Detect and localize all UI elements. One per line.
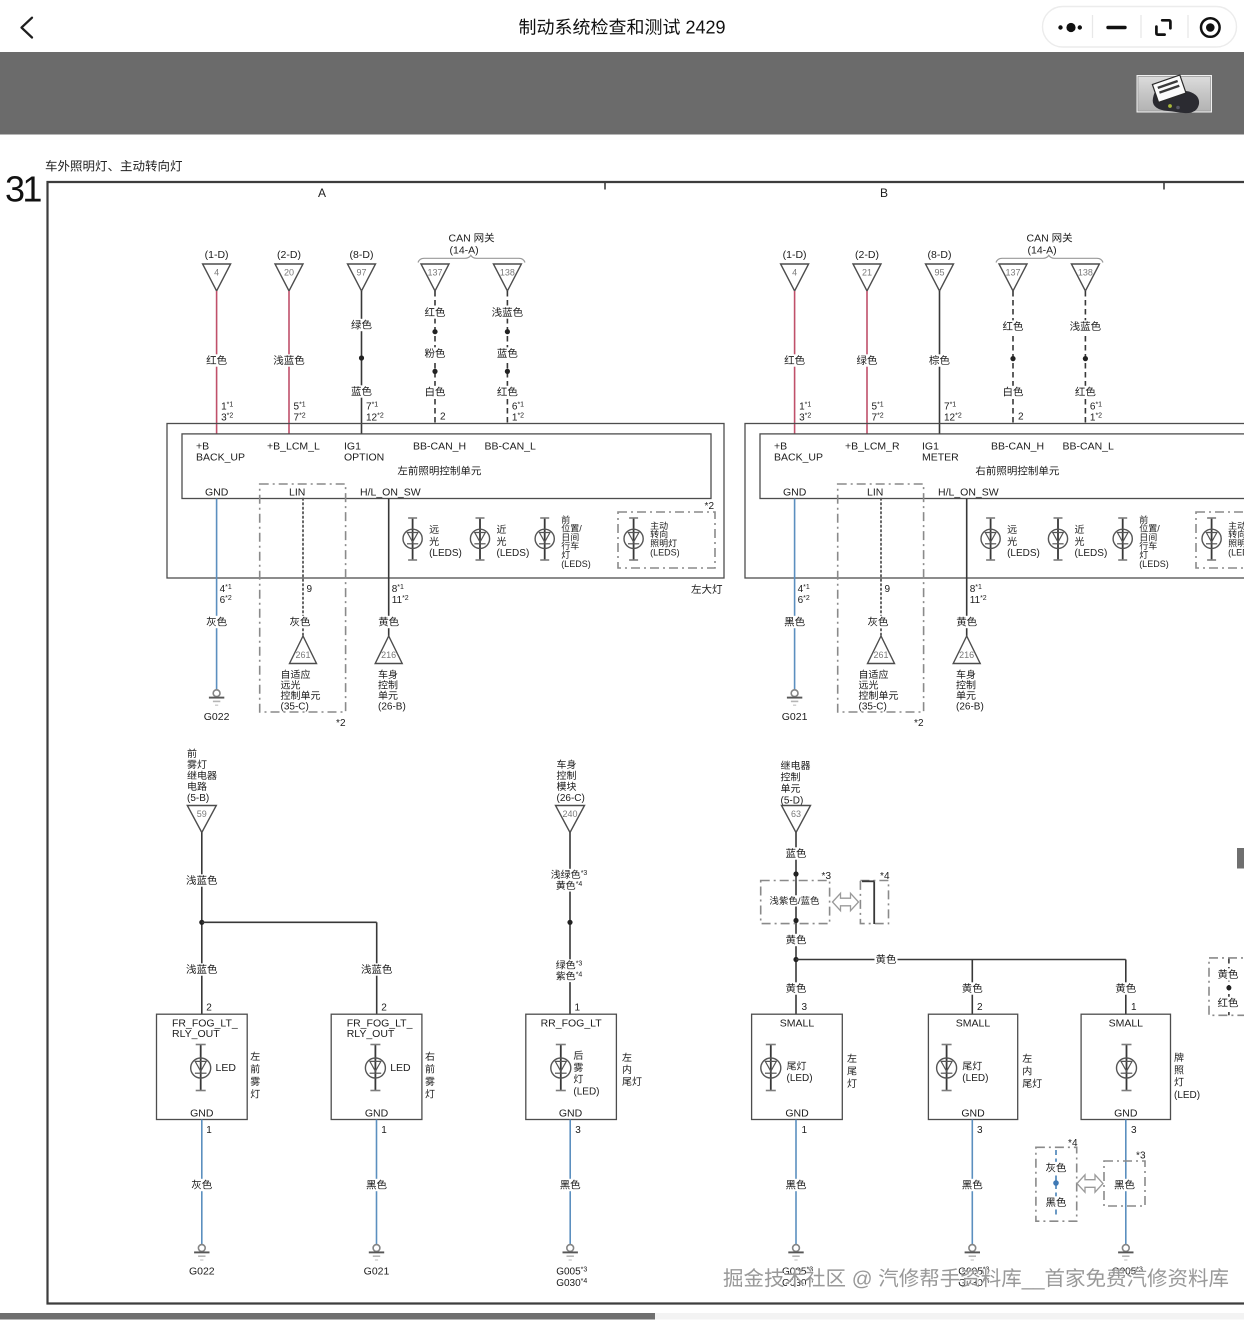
svg-text:21: 21: [862, 265, 872, 278]
svg-text:9: 9: [885, 580, 891, 595]
svg-text:(LEDS): (LEDS): [650, 546, 680, 559]
svg-text:灰色: 灰色: [868, 615, 889, 630]
svg-text:绿色: 绿色: [351, 318, 372, 333]
svg-text:(5-B): (5-B): [187, 789, 209, 804]
svg-text:METER: METER: [922, 450, 959, 465]
svg-text:黑色: 黑色: [560, 1178, 581, 1193]
svg-text:绿色: 绿色: [857, 353, 878, 368]
svg-text:(LED): (LED): [573, 1082, 599, 1097]
svg-text:尾灯: 尾灯: [622, 1073, 642, 1088]
svg-text:浅蓝色: 浅蓝色: [492, 305, 524, 320]
svg-text:3: 3: [1131, 1121, 1137, 1136]
svg-text:95: 95: [934, 265, 944, 278]
svg-text:261: 261: [295, 648, 310, 661]
svg-text:3: 3: [802, 998, 808, 1013]
svg-text:(26-B): (26-B): [378, 698, 406, 713]
svg-text:左大灯: 左大灯: [691, 582, 723, 597]
svg-text:59: 59: [197, 807, 207, 820]
svg-text:LIN: LIN: [289, 485, 305, 500]
svg-text:(26-C): (26-C): [557, 789, 585, 804]
svg-text:(LEDS): (LEDS): [429, 544, 462, 559]
svg-text:H/L_ON_SW: H/L_ON_SW: [360, 485, 421, 500]
svg-text:240: 240: [562, 807, 577, 820]
svg-text:2: 2: [1018, 408, 1024, 423]
svg-text:左前照明控制单元: 左前照明控制单元: [397, 464, 481, 479]
svg-text:A: A: [318, 184, 326, 201]
svg-text:BB-CAN_H: BB-CAN_H: [991, 439, 1044, 454]
svg-text:LED: LED: [390, 1060, 411, 1075]
svg-text:*2: *2: [336, 714, 346, 729]
svg-text:GND: GND: [1114, 1106, 1138, 1121]
svg-text:浅蓝色: 浅蓝色: [361, 962, 393, 977]
svg-text:+B_LCM_R: +B_LCM_R: [845, 439, 900, 454]
svg-text:LED: LED: [216, 1060, 237, 1075]
svg-text:137: 137: [427, 265, 442, 278]
svg-text:GND: GND: [190, 1106, 214, 1121]
svg-text:浅蓝色: 浅蓝色: [273, 353, 305, 368]
svg-text:粉色: 粉色: [425, 346, 446, 361]
svg-text:216: 216: [959, 648, 974, 661]
svg-text:黄色: 黄色: [378, 615, 399, 630]
svg-text:红色: 红色: [784, 353, 805, 368]
svg-text:GND: GND: [785, 1106, 809, 1121]
svg-text:63: 63: [791, 807, 801, 820]
svg-text:(LEDS): (LEDS): [1075, 544, 1108, 559]
svg-text:1: 1: [206, 1121, 212, 1136]
svg-text:RR_FOG_LT: RR_FOG_LT: [541, 1016, 603, 1031]
svg-text:(35-C): (35-C): [281, 698, 309, 713]
svg-text:灯: 灯: [250, 1086, 260, 1101]
svg-text:白色: 白色: [425, 385, 446, 400]
svg-text:(LEDS): (LEDS): [497, 544, 530, 559]
svg-text:BB-CAN_L: BB-CAN_L: [485, 439, 537, 454]
svg-text:(8-D): (8-D): [928, 247, 952, 262]
svg-text:棕色: 棕色: [929, 353, 950, 368]
svg-text:蓝色: 蓝色: [497, 346, 518, 361]
svg-text:(14-A): (14-A): [1028, 243, 1057, 258]
svg-text:4: 4: [792, 265, 797, 278]
svg-text:红色: 红色: [206, 353, 227, 368]
svg-text:黄色: 黄色: [876, 952, 897, 967]
svg-text:SMALL: SMALL: [956, 1016, 991, 1031]
svg-text:*3: *3: [1136, 1147, 1146, 1162]
svg-text:H/L_ON_SW: H/L_ON_SW: [938, 485, 999, 500]
svg-text:*2: *2: [914, 714, 924, 729]
svg-text:黑色: 黑色: [366, 1178, 387, 1193]
svg-text:红色: 红色: [1003, 319, 1024, 334]
svg-text:138: 138: [1078, 265, 1093, 278]
svg-text:尾灯: 尾灯: [1022, 1075, 1042, 1090]
svg-text:浅蓝色: 浅蓝色: [186, 962, 218, 977]
svg-text:1: 1: [575, 999, 581, 1014]
svg-text:灰色: 灰色: [1046, 1161, 1068, 1176]
svg-text:4: 4: [214, 265, 219, 278]
svg-text:黄色: 黄色: [1218, 967, 1240, 982]
svg-text:2: 2: [977, 998, 983, 1013]
svg-text:(35-C): (35-C): [859, 698, 887, 713]
svg-text:*4: *4: [880, 867, 890, 882]
svg-text:(LEDS): (LEDS): [1228, 546, 1244, 559]
svg-text:白色: 白色: [1003, 385, 1024, 400]
svg-text:1: 1: [381, 1121, 387, 1136]
svg-text:掘金技术社区 @ 汽修帮手资料库__首家免费汽修资料库: 掘金技术社区 @ 汽修帮手资料库__首家免费汽修资料库: [723, 1262, 1229, 1292]
svg-text:2: 2: [206, 999, 212, 1014]
svg-text:3: 3: [977, 1121, 983, 1136]
svg-text:红色: 红色: [1218, 996, 1240, 1011]
svg-text:BACK_UP: BACK_UP: [774, 450, 823, 465]
svg-text:(LEDS): (LEDS): [561, 557, 591, 570]
svg-text:灰色: 灰色: [206, 615, 227, 630]
svg-text:灯: 灯: [425, 1086, 435, 1101]
svg-text:(14-A): (14-A): [450, 243, 479, 258]
svg-text:BB-CAN_H: BB-CAN_H: [413, 439, 466, 454]
svg-text:灰色: 灰色: [290, 615, 311, 630]
svg-text:黑色: 黑色: [784, 615, 805, 630]
svg-text:(LEDS): (LEDS): [1139, 557, 1169, 570]
svg-text:右前照明控制单元: 右前照明控制单元: [975, 464, 1059, 479]
svg-text:红色: 红色: [425, 305, 446, 320]
svg-text:(1-D): (1-D): [783, 247, 807, 262]
svg-text:GND: GND: [559, 1106, 583, 1121]
svg-text:(5-D): (5-D): [781, 792, 804, 807]
svg-text:2: 2: [381, 999, 387, 1014]
svg-text:RLY_OUT: RLY_OUT: [347, 1026, 395, 1041]
svg-text:G021: G021: [364, 1264, 390, 1279]
svg-text:黄色: 黄色: [786, 981, 807, 996]
svg-text:RLY_OUT: RLY_OUT: [172, 1026, 220, 1041]
svg-text:灯: 灯: [847, 1075, 857, 1090]
svg-text:(LED): (LED): [962, 1069, 988, 1084]
svg-text:(LEDS): (LEDS): [1007, 544, 1040, 559]
svg-text:黄色: 黄色: [962, 981, 983, 996]
svg-text:G022: G022: [204, 709, 230, 724]
svg-text:(1-D): (1-D): [205, 247, 229, 262]
svg-text:OPTION: OPTION: [344, 450, 384, 465]
svg-text:97: 97: [356, 265, 366, 278]
svg-text:216: 216: [381, 648, 396, 661]
svg-text:GND: GND: [961, 1106, 985, 1121]
svg-text:*3: *3: [822, 867, 832, 882]
svg-text:黑色: 黑色: [1114, 1178, 1136, 1193]
svg-text:1: 1: [802, 1121, 808, 1136]
svg-text:137: 137: [1005, 265, 1020, 278]
svg-text:*4: *4: [1068, 1134, 1078, 1149]
svg-text:蓝色: 蓝色: [786, 846, 807, 861]
svg-text:(2-D): (2-D): [277, 247, 301, 262]
svg-text:SMALL: SMALL: [1109, 1016, 1144, 1031]
svg-text:GND: GND: [783, 485, 807, 500]
svg-text:1: 1: [1131, 998, 1137, 1013]
svg-text:(8-D): (8-D): [350, 247, 374, 262]
svg-text:BB-CAN_L: BB-CAN_L: [1063, 439, 1115, 454]
svg-text:*2: *2: [705, 497, 715, 512]
svg-text:GND: GND: [365, 1106, 389, 1121]
svg-text:20: 20: [284, 265, 294, 278]
svg-text:31: 31: [5, 161, 41, 213]
svg-text:黄色: 黄色: [1115, 981, 1137, 996]
svg-text:LIN: LIN: [867, 485, 883, 500]
svg-text:(LED): (LED): [1174, 1086, 1200, 1101]
svg-text:灰色: 灰色: [191, 1178, 212, 1193]
svg-text:黑色: 黑色: [962, 1178, 983, 1193]
svg-text:浅紫色/蓝色: 浅紫色/蓝色: [769, 893, 820, 907]
svg-text:黑色: 黑色: [786, 1178, 807, 1193]
svg-text:黄色: 黄色: [786, 933, 807, 948]
svg-text:3: 3: [575, 1121, 581, 1136]
svg-text:(26-B): (26-B): [956, 698, 984, 713]
svg-text:黄色: 黄色: [956, 615, 977, 630]
svg-text:(LED): (LED): [787, 1069, 813, 1084]
svg-text:GND: GND: [205, 485, 229, 500]
svg-text:(2-D): (2-D): [855, 247, 879, 262]
svg-text:黑色: 黑色: [1046, 1195, 1068, 1210]
svg-text:BACK_UP: BACK_UP: [196, 450, 245, 465]
svg-text:138: 138: [500, 265, 515, 278]
svg-text:浅蓝色: 浅蓝色: [1070, 319, 1102, 334]
svg-text:制动系统检查和测试 2429: 制动系统检查和测试 2429: [518, 14, 725, 40]
svg-text:2: 2: [440, 408, 446, 423]
svg-text:G021: G021: [782, 709, 808, 724]
svg-text:261: 261: [873, 648, 888, 661]
svg-text:G022: G022: [189, 1264, 215, 1279]
svg-text:+B_LCM_L: +B_LCM_L: [267, 439, 320, 454]
svg-text:SMALL: SMALL: [780, 1016, 815, 1031]
svg-text:车外照明灯、主动转向灯: 车外照明灯、主动转向灯: [45, 156, 183, 175]
svg-text:B: B: [880, 184, 888, 201]
svg-text:浅蓝色: 浅蓝色: [186, 873, 218, 888]
svg-text:9: 9: [307, 580, 313, 595]
